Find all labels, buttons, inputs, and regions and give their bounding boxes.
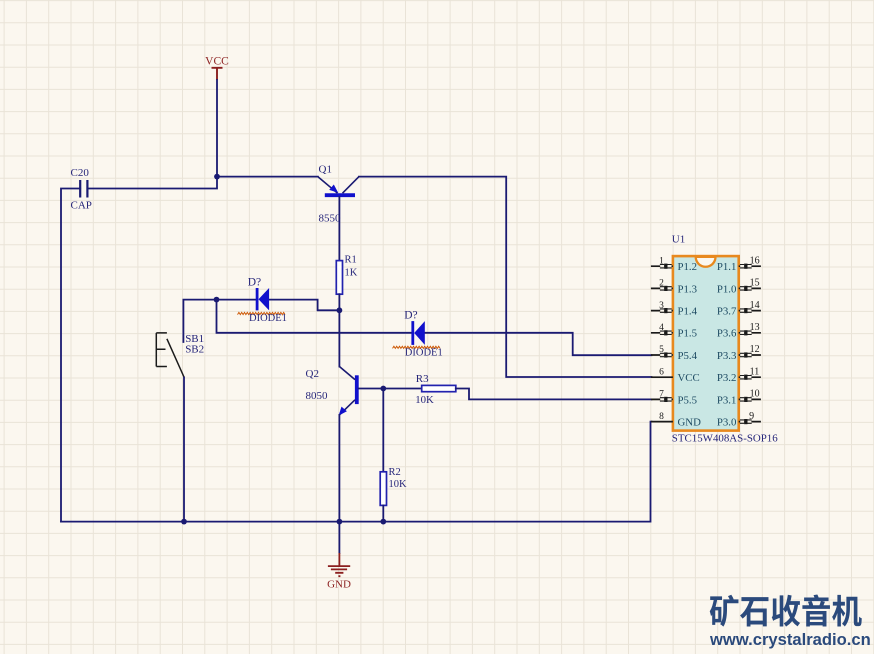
wire VCC to node A <box>216 80 218 177</box>
svg-text:8550: 8550 <box>319 213 342 225</box>
wire Q1 base to R1 <box>338 197 340 261</box>
U1 pin 13 P3.6 <box>717 322 761 340</box>
svg-text:D?: D? <box>404 309 417 321</box>
node A junction <box>214 174 220 180</box>
svg-text:P3.1: P3.1 <box>717 394 737 406</box>
svg-text:R3: R3 <box>416 373 429 385</box>
diode D? upper DIODE1 <box>238 277 287 324</box>
U1 pin 10 P3.1 <box>717 389 761 407</box>
svg-text:12: 12 <box>750 344 760 355</box>
svg-text:5: 5 <box>659 345 664 355</box>
svg-text:CAP: CAP <box>71 200 92 212</box>
wire node C to D2 to U1 pin 5 <box>217 300 652 356</box>
U1 pin 12 P3.3 <box>717 344 761 362</box>
svg-text:9: 9 <box>749 411 754 422</box>
wire node A to Q1 <box>217 176 318 178</box>
svg-text:10K: 10K <box>415 394 434 406</box>
junction R2 bottom rail <box>380 519 386 525</box>
svg-text:3: 3 <box>659 301 664 311</box>
svg-text:GND: GND <box>327 579 351 591</box>
U1 pin 16 P1.1 <box>717 255 761 273</box>
U1 pin 1 P1.2 <box>651 256 697 273</box>
svg-text:STC15W408AS-SOP16: STC15W408AS-SOP16 <box>672 432 778 444</box>
svg-text:10: 10 <box>750 389 760 400</box>
op-amp U1 body STC15W408AS-SOP16 <box>672 233 778 444</box>
svg-text:P1.1: P1.1 <box>717 261 737 273</box>
svg-text:16: 16 <box>750 255 760 266</box>
U1 pin 11 P3.2 <box>717 366 761 384</box>
resistor R2 <box>380 467 407 506</box>
svg-text:C20: C20 <box>71 167 90 179</box>
svg-text:8050: 8050 <box>306 390 329 402</box>
svg-text:SB2: SB2 <box>185 344 204 356</box>
svg-text:R1: R1 <box>345 254 357 265</box>
svg-text:P1.4: P1.4 <box>678 306 698 318</box>
node C junction <box>214 297 220 303</box>
junction switch bottom rail <box>181 519 187 525</box>
wire node D to R2 <box>382 389 384 472</box>
svg-text:VCC: VCC <box>678 372 700 384</box>
svg-text:D?: D? <box>248 277 261 289</box>
U1 pin 14 P3.7 <box>717 300 761 318</box>
svg-text:1K: 1K <box>345 268 358 279</box>
svg-text:7: 7 <box>659 390 664 400</box>
power VCC <box>205 56 229 81</box>
svg-text:R2: R2 <box>389 467 401 478</box>
wire R1 to node B <box>338 294 340 310</box>
switch SB1 SB2 <box>156 333 204 378</box>
transistor Q2 <box>306 367 357 416</box>
resistor R1 <box>336 254 357 294</box>
U1 pin 9 P3.0 <box>717 411 761 429</box>
svg-text:P3.6: P3.6 <box>717 328 737 340</box>
U1 pin 15 P1.0 <box>717 278 761 296</box>
svg-text:15: 15 <box>750 278 760 289</box>
svg-text:11: 11 <box>750 366 760 377</box>
svg-text:P3.7: P3.7 <box>717 306 737 318</box>
svg-text:DIODE1: DIODE1 <box>249 313 287 324</box>
U1 pin 5 P5.4 <box>651 345 698 362</box>
ground GND <box>327 553 351 591</box>
wire C20 to node A <box>87 177 217 189</box>
node B junction <box>337 307 343 313</box>
svg-text:P3.2: P3.2 <box>717 372 737 384</box>
wire C20 left side down <box>61 189 80 522</box>
svg-text:1: 1 <box>659 256 664 266</box>
wire node C to D1 to node B <box>217 300 340 311</box>
svg-text:P1.0: P1.0 <box>717 283 737 295</box>
svg-text:8: 8 <box>659 412 664 422</box>
svg-text:VCC: VCC <box>205 56 229 68</box>
U1 pin 3 P1.4 <box>651 301 698 318</box>
svg-text:Q2: Q2 <box>306 368 319 380</box>
resistor R3 <box>415 373 456 406</box>
svg-text:P1.5: P1.5 <box>678 328 698 340</box>
wire bottom rail to U1 pin 8 <box>61 422 652 522</box>
svg-text:www.crystalradio.cn: www.crystalradio.cn <box>709 630 871 649</box>
svg-text:4: 4 <box>659 323 664 333</box>
svg-text:10K: 10K <box>389 479 408 490</box>
wire node C to switch <box>183 300 216 342</box>
capacitor C20 <box>71 167 92 212</box>
svg-text:14: 14 <box>750 300 760 311</box>
junction GND bottom rail <box>337 519 343 525</box>
svg-text:Q1: Q1 <box>319 164 332 176</box>
wire node B to Q2 <box>338 310 340 366</box>
wire Q2 emitter to bottom rail <box>338 415 340 522</box>
diode D? lower DIODE1 <box>393 309 443 358</box>
wire GND stem <box>338 522 340 553</box>
U1 pin 6 VCC <box>651 367 700 384</box>
wire R3 to U1 pin 7 <box>456 389 652 400</box>
svg-text:P3.0: P3.0 <box>717 417 737 429</box>
wire switch to bottom rail <box>183 378 185 522</box>
wire R2 to bottom rail <box>382 505 384 521</box>
svg-text:P1.2: P1.2 <box>678 261 698 273</box>
U1 pin 8 GND <box>651 412 701 429</box>
wire Q2 base to R3 <box>359 388 422 390</box>
svg-text:P3.3: P3.3 <box>717 350 737 362</box>
transistor Q1 <box>318 164 359 225</box>
U1 pin 4 P1.5 <box>651 323 697 340</box>
svg-text:P1.3: P1.3 <box>678 283 698 295</box>
watermark logo <box>709 594 871 649</box>
node D junction <box>380 386 386 392</box>
svg-text:2: 2 <box>659 279 664 289</box>
svg-text:DIODE1: DIODE1 <box>405 348 443 359</box>
svg-text:GND: GND <box>678 417 702 429</box>
wire Q1 collector to U1 pin 6 <box>359 177 652 377</box>
svg-text:6: 6 <box>659 367 664 377</box>
svg-text:13: 13 <box>750 322 760 333</box>
U1 pin 2 P1.3 <box>651 279 697 296</box>
svg-text:P5.4: P5.4 <box>678 350 698 362</box>
svg-text:U1: U1 <box>672 233 685 245</box>
svg-text:P5.5: P5.5 <box>678 394 698 406</box>
U1 pin 7 P5.5 <box>651 390 697 407</box>
